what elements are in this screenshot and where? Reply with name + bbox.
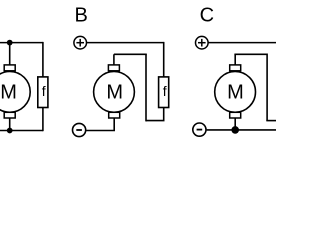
svg-text:B: B [75, 5, 88, 27]
junction dot A top [7, 40, 13, 46]
motor M (C) top brush [230, 65, 241, 71]
wire B motor bottom lead [113, 118, 115, 131]
motor M (B) top brush [108, 65, 119, 71]
wire C motor top lead [234, 54, 236, 65]
wire B field winding bottom lead [163, 108, 165, 121]
terminal + (C) [196, 36, 209, 49]
svg-text:C: C [200, 5, 214, 27]
wire B inner horizontal to motor [114, 53, 147, 55]
junction dot C bottom [231, 126, 239, 134]
motor M (A) body [0, 72, 30, 113]
junction dot A bottom [7, 128, 13, 134]
wire B inner vertical return [145, 54, 147, 121]
wire C bottom jog to image edge [266, 120, 276, 122]
svg-text:M: M [0, 82, 17, 104]
motor M (C) body [215, 72, 256, 113]
wire C bottom rail from - terminal to image edge [207, 129, 276, 131]
svg-text:M: M [227, 82, 244, 104]
wire C inner vertical down [266, 54, 268, 121]
motor M (C) bottom brush [230, 112, 241, 118]
wire A field winding bottom lead [42, 108, 44, 132]
wire C inner horizontal [234, 53, 267, 55]
field winding f (A) resistor box [38, 77, 48, 108]
wire C top rail from + to image edge [208, 42, 276, 44]
wire B motor top lead [113, 54, 115, 65]
wire B bottom rail to - terminal [86, 130, 115, 132]
wire A motor top lead [9, 43, 11, 66]
wire B right side down to field winding [163, 42, 165, 77]
wire C motor bottom lead [234, 118, 236, 130]
motor M (B) body [94, 72, 135, 113]
wire B bottom jog leftward [146, 120, 165, 122]
wire A bottom rail [0, 130, 43, 132]
svg-text:f: f [163, 83, 167, 99]
wire A right branch down to field winding [42, 42, 44, 77]
wire A motor bottom lead [9, 118, 11, 131]
motor M (A) top brush [4, 65, 15, 71]
terminal - (C) [193, 123, 206, 136]
field winding f (B) resistor box [159, 77, 169, 108]
motor M (A) bottom brush [4, 112, 15, 118]
svg-text:f: f [42, 83, 46, 99]
terminal - (B) [73, 123, 86, 136]
wire B top rail from + to corner [87, 42, 164, 44]
terminal + (B) [74, 36, 87, 49]
wire A top rail [0, 42, 43, 44]
motor M (B) bottom brush [109, 112, 120, 118]
svg-text:M: M [106, 82, 123, 104]
